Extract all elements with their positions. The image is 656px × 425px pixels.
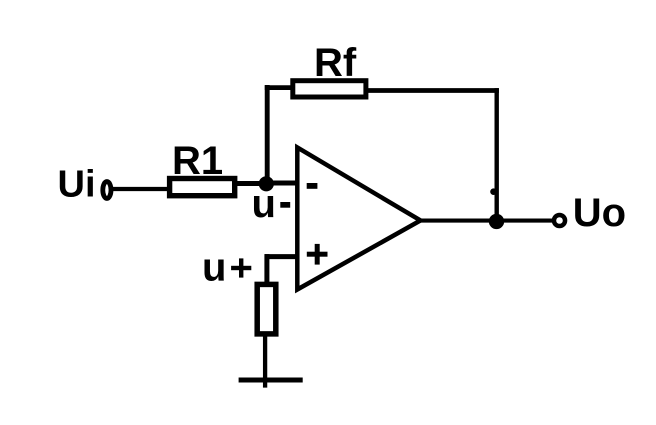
wire op-amp output to terminal	[418, 219, 553, 223]
resistor R1	[170, 179, 235, 196]
svg-text:Uo: Uo	[573, 191, 626, 235]
small junction dot on feedback vertical	[490, 188, 497, 195]
svg-text:Rf: Rf	[314, 41, 357, 85]
resistor R2 vertical	[257, 284, 276, 334]
op-amp minus sign	[307, 183, 318, 189]
ground	[239, 378, 303, 383]
wire noninverting input vertical	[264, 254, 269, 286]
wire feedback right vertical	[495, 88, 499, 221]
svg-text:u: u	[202, 246, 226, 290]
wire feedback left vertical	[265, 85, 270, 184]
wire R1 to inverting node	[236, 181, 268, 186]
output junction dot	[489, 214, 504, 229]
wire resistor R2 to ground	[263, 334, 267, 388]
svg-text:Ui: Ui	[58, 164, 96, 206]
resistor Rf	[293, 81, 366, 97]
wire node to op-amp inverting input	[266, 181, 298, 186]
op-amp plus sign	[307, 244, 328, 265]
wire Rf to right corner	[366, 88, 499, 93]
output terminal circle	[554, 215, 565, 226]
wire op-amp noninverting input horizontal	[265, 254, 299, 259]
label u-	[252, 182, 291, 226]
wire input terminal to R1	[112, 187, 170, 191]
input terminal circle	[103, 182, 111, 199]
label u+	[202, 246, 251, 290]
node u- junction dot	[259, 176, 274, 191]
svg-text:R1: R1	[172, 139, 223, 183]
op-amp U1 triangle	[297, 148, 420, 290]
wire feedback top left horizontal	[265, 85, 292, 90]
svg-text:u: u	[252, 182, 276, 226]
